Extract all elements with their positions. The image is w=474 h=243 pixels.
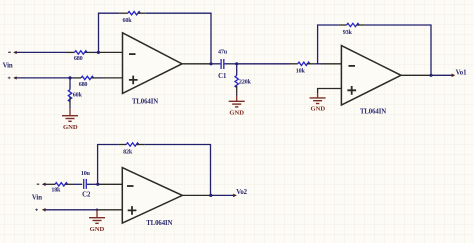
wire output pin U1 <box>182 63 211 65</box>
svg-text:TL064IN: TL064IN <box>132 99 158 106</box>
port arrow Vo1 <box>452 74 456 78</box>
ground GND2 (U2 plus input) <box>310 93 326 113</box>
capacitor C2 10u <box>81 171 91 199</box>
wire C1 to junction <box>225 63 237 65</box>
svg-text:93k: 93k <box>343 30 353 36</box>
junction (feedback 1 / output) <box>209 62 212 65</box>
svg-text:GND: GND <box>310 106 325 113</box>
svg-text:680: 680 <box>79 82 88 88</box>
svg-text:GND: GND <box>90 226 105 233</box>
svg-text:Vo1: Vo1 <box>456 70 467 77</box>
op-amp U2 TL064IN <box>341 46 401 116</box>
wire plus rail to opamp U1 <box>16 77 122 79</box>
svg-text:C1: C1 <box>218 73 227 80</box>
op-amp U3 TL064IN <box>122 168 182 227</box>
junction (feedback 2 / output) <box>429 74 432 77</box>
wire 10k to opamp U2 minus <box>315 63 342 65</box>
capacitor C1 47u <box>218 50 228 81</box>
ground GND3 (bottom plus rail) <box>89 210 105 233</box>
wire minus rail to opamp U1 <box>16 51 122 53</box>
resistor 18k (series) <box>47 183 73 194</box>
junction (60k tap, plus input) <box>68 76 71 79</box>
wire feedback loop 2 <box>318 25 431 75</box>
resistor 680 (minus rail) <box>67 51 94 63</box>
resistor 93k (feedback 2) <box>339 23 365 36</box>
ground GND1 (under 60k) <box>62 108 78 131</box>
wire output pin U3 <box>182 194 211 196</box>
port marker plus (bottom input) <box>35 208 45 212</box>
junction (feedback 3 tap) <box>96 183 99 186</box>
resistor 60k (shunt to ground) <box>68 78 82 108</box>
svg-text:60k: 60k <box>73 93 83 99</box>
wire bottom minus rail <box>45 183 122 185</box>
resistor 680 (plus rail) <box>73 76 99 88</box>
port marker minus (bottom input) <box>37 183 46 187</box>
svg-text:Vin: Vin <box>32 195 42 202</box>
resistor 82k (feedback 3) <box>118 143 144 156</box>
svg-text:TL064IN: TL064IN <box>146 220 172 227</box>
wire feedback loop 3 <box>98 145 211 196</box>
svg-text:680: 680 <box>74 56 83 62</box>
junction (feedback tap, minus input) <box>97 51 100 54</box>
svg-text:47u: 47u <box>218 50 228 56</box>
wire bottom plus rail <box>45 209 122 211</box>
ground GND4 (under 220k) <box>229 96 245 117</box>
svg-text:18k: 18k <box>51 188 61 194</box>
wire feedback loop 1 <box>99 13 212 64</box>
junction (220k tap) <box>235 62 238 65</box>
wire output U3 to port Vo2 <box>211 194 234 196</box>
svg-text:10k: 10k <box>296 68 306 74</box>
svg-text:Vo2: Vo2 <box>236 189 247 196</box>
wire plus pin U2 to ground <box>318 89 342 94</box>
svg-text:220k: 220k <box>239 80 252 86</box>
port marker plus (top input) <box>8 76 17 79</box>
svg-text:GND: GND <box>63 124 78 131</box>
resistor 10k (series) <box>290 62 315 74</box>
svg-text:10u: 10u <box>81 171 91 177</box>
svg-text:60k: 60k <box>123 18 133 24</box>
resistor 220k (shunt to ground) <box>235 64 251 96</box>
svg-text:82k: 82k <box>123 149 133 155</box>
port marker minus (top input) <box>8 51 17 54</box>
svg-text:TL064IN: TL064IN <box>360 108 386 115</box>
svg-text:C2: C2 <box>82 192 91 199</box>
port arrow Vo2 <box>233 194 237 198</box>
junction (feedback 3 / output) <box>209 194 212 197</box>
resistor 60k (feedback 1) <box>120 12 146 25</box>
wire output pin U2 <box>401 74 431 76</box>
wire junction to 10k <box>237 63 290 65</box>
junction (ground tap, bottom plus rail) <box>96 209 99 212</box>
svg-text:Vin: Vin <box>3 62 13 69</box>
op-amp U1 TL064IN <box>123 33 183 106</box>
svg-text:GND: GND <box>229 109 244 116</box>
wire output U1 to C1 <box>211 63 220 65</box>
wire output U2 to port Vo1 <box>431 74 452 76</box>
